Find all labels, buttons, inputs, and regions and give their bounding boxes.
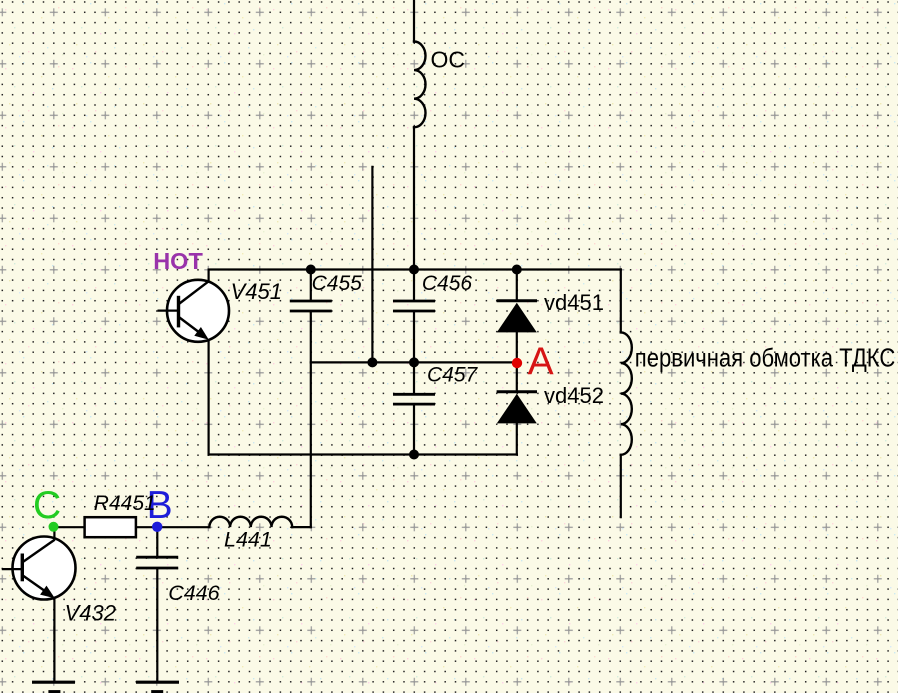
node C dot — [49, 522, 59, 532]
diode vd452 — [497, 392, 537, 424]
wire C455 top lead — [310, 270, 312, 301]
svg-text:первичная обмотка ТДКС: первичная обмотка ТДКС — [635, 343, 896, 373]
wire resistor to L441 — [136, 526, 210, 528]
wire V432 collector lead — [53, 527, 55, 539]
transistor V451 — [158, 270, 230, 342]
wire right drop — [620, 270, 622, 333]
wire B node down — [156, 527, 158, 556]
junction bottom C457 — [409, 450, 419, 460]
junction top C455 — [306, 265, 316, 275]
node B dot — [152, 522, 162, 532]
winding primary TDKS — [621, 332, 632, 454]
transistor V432 — [2, 537, 76, 600]
wire bottom bus — [209, 453, 517, 455]
svg-text:L441: L441 — [224, 528, 272, 552]
wire diode top lead — [516, 270, 518, 301]
wire stub node — [371, 167, 373, 363]
wire diode bottom lead — [516, 423, 518, 454]
svg-text:R4451: R4451 — [94, 492, 156, 515]
wire OC to top bus — [413, 127, 415, 269]
ground V432 — [32, 682, 75, 692]
svg-text:vd452: vd452 — [544, 383, 604, 408]
wire C446 to ground — [156, 569, 158, 682]
svg-text:V432: V432 — [65, 600, 116, 625]
inductor L441 — [209, 517, 292, 527]
node A dot — [512, 358, 522, 368]
svg-text:C457: C457 — [427, 364, 479, 387]
wire diode mid lead — [516, 332, 518, 391]
svg-text:HOT: HOT — [153, 248, 203, 274]
capacitor C457 — [393, 394, 435, 404]
junction C456 middle — [409, 357, 419, 367]
svg-text:C446: C446 — [168, 581, 219, 605]
wire C456 to C457 — [413, 312, 415, 393]
wire base-resistor net — [54, 526, 85, 528]
capacitor C456 — [393, 301, 435, 311]
diode vd451 — [497, 301, 537, 333]
svg-text:OC: OC — [431, 47, 466, 73]
inductor OC — [414, 42, 426, 128]
resistor R445 — [85, 517, 136, 537]
svg-text:V451: V451 — [231, 279, 282, 304]
junction top C456 — [409, 265, 419, 275]
wire top feed — [413, 0, 415, 42]
junction stub middle — [367, 357, 377, 367]
wire C455 bottom long lead — [310, 312, 312, 527]
wire V451 emitter lead — [208, 340, 210, 455]
svg-text:C: C — [33, 484, 61, 527]
capacitor C446 — [136, 557, 178, 568]
wire middle bus — [311, 361, 517, 363]
svg-text:vd451: vd451 — [544, 290, 604, 315]
capacitor C455 — [290, 301, 332, 311]
wire C457 bottom lead — [413, 405, 415, 455]
wire L441 to riser — [292, 526, 311, 528]
ground C446 — [136, 682, 179, 692]
junction top diode — [512, 265, 522, 275]
svg-text:C456: C456 — [422, 272, 473, 295]
svg-text:A: A — [528, 340, 554, 383]
svg-text:C455: C455 — [312, 272, 363, 295]
wire winding tail — [620, 455, 622, 517]
wire C456 top lead — [413, 270, 415, 301]
wire V432 emitter lead — [53, 597, 55, 682]
wire top bus — [209, 268, 621, 270]
